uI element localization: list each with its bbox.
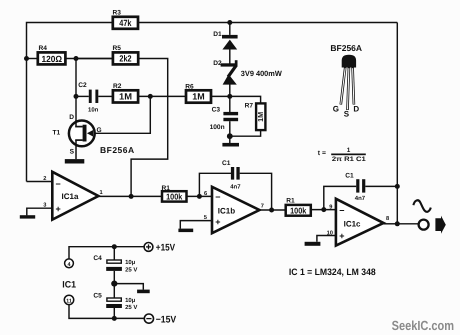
svg-text:100n: 100n	[210, 124, 225, 131]
wire R1b right to IC1c pin9	[310, 209, 336, 211]
svg-text:3: 3	[43, 203, 46, 209]
svg-text:SeekIC.com: SeekIC.com	[392, 318, 455, 333]
zener D2 3V9 400mW	[213, 60, 282, 85]
svg-text:+: +	[215, 217, 220, 227]
ground power mid node	[137, 290, 150, 294]
svg-text:+15V: +15V	[156, 243, 176, 254]
wire R5 left lead from node A	[76, 58, 113, 60]
svg-text:2k2: 2k2	[119, 54, 131, 64]
wire IC1a output to R1a	[98, 195, 162, 197]
node IC1c pin9	[321, 207, 326, 212]
svg-text:47k: 47k	[119, 18, 132, 28]
terminal -15V	[144, 314, 176, 326]
output arrow	[435, 216, 445, 234]
resistor R7 1M vertical	[245, 102, 266, 130]
node C4 top rail	[112, 244, 117, 249]
svg-text:4n7: 4n7	[230, 184, 241, 191]
wire node A down to C2 / drain	[75, 59, 77, 121]
node C5 bottom rail	[112, 316, 117, 321]
svg-text:6: 6	[204, 191, 207, 197]
svg-text:1M: 1M	[256, 112, 265, 122]
resistor R1b 100k	[286, 198, 311, 216]
svg-text:D: D	[353, 105, 359, 114]
svg-text:C1: C1	[345, 172, 354, 179]
wire power bottom rail	[69, 305, 144, 319]
wire mid node to ground	[114, 284, 143, 290]
capacitor C4 10u 25V electrolytic	[93, 255, 137, 273]
terminal pin 4	[65, 259, 74, 268]
wire IC1b output to R1b	[259, 209, 285, 211]
svg-text:1: 1	[347, 147, 351, 154]
svg-text:C2: C2	[78, 82, 87, 89]
wire C3 bottom to lower node	[229, 121, 231, 136]
svg-text:4n7: 4n7	[355, 195, 366, 202]
node IC1b pin6	[197, 194, 202, 199]
wire mid node to C5 top	[113, 284, 115, 298]
wire R1a right to IC1b pin6	[186, 195, 212, 197]
svg-text:T1: T1	[53, 130, 61, 137]
svg-text:1: 1	[100, 190, 103, 196]
svg-text:S: S	[70, 148, 75, 155]
ground T1 source	[65, 159, 85, 163]
wire R7 branch top	[230, 96, 261, 103]
svg-text:2π R1 C1: 2π R1 C1	[332, 156, 366, 163]
op-amp U1c IC1c	[327, 199, 390, 246]
svg-text:C1: C1	[222, 160, 231, 167]
svg-text:−15V: −15V	[156, 315, 177, 326]
ground below C3/R7 node	[222, 143, 239, 147]
svg-text:R4: R4	[39, 45, 48, 52]
svg-text:R6: R6	[185, 83, 194, 90]
capacitor C2 10n	[78, 82, 98, 114]
node R6/diodes/C3/R7	[227, 94, 232, 99]
ground IC1b pin5	[178, 229, 193, 233]
svg-text:−: −	[56, 179, 61, 189]
svg-text:2: 2	[43, 176, 46, 182]
ground IC1a pin3	[20, 215, 35, 218]
svg-text:BF256A: BF256A	[330, 43, 362, 53]
wire IC1c pin10 input with ground stub	[317, 236, 336, 242]
capacitor C3 100n	[210, 107, 238, 131]
node output	[395, 221, 400, 226]
node C3/R7 bottom	[227, 133, 233, 139]
wire IC1b pin5 input with ground stub	[180, 221, 212, 229]
svg-text:t =: t =	[318, 150, 326, 157]
svg-text:R7: R7	[245, 102, 254, 109]
wire R2 right to R6 left	[138, 95, 186, 97]
svg-text:R1: R1	[162, 185, 171, 192]
svg-text:IC1c: IC1c	[344, 219, 361, 228]
wire IC1a pin3 input with ground stub	[27, 208, 53, 215]
svg-text:R5: R5	[113, 45, 122, 52]
capacitor C5 10u 25V electrolytic	[93, 292, 137, 311]
svg-text:+: +	[339, 231, 344, 241]
sine wave symbol	[413, 200, 430, 212]
svg-text:−: −	[339, 205, 344, 215]
svg-text:7: 7	[261, 204, 264, 210]
wire R7 branch bottom	[230, 130, 261, 136]
wire output node to terminal circle	[397, 223, 418, 225]
svg-text:10: 10	[327, 230, 333, 236]
svg-text:BF256A: BF256A	[100, 145, 135, 155]
node diode top	[227, 20, 232, 25]
wire R4 right to node A	[65, 58, 113, 60]
svg-text:S: S	[344, 109, 350, 118]
wire node C down and left to gate arrow	[93, 96, 151, 133]
ground IC1c pin10	[305, 242, 321, 246]
svg-text:C4: C4	[93, 255, 102, 262]
svg-text:IC1: IC1	[62, 279, 76, 289]
resistor R1a 100k	[162, 185, 187, 202]
wire node to C3 top plate	[229, 96, 231, 112]
wire IC1b feedback loop via C1a	[199, 173, 231, 196]
svg-text:G: G	[333, 105, 339, 114]
svg-text:120Ω: 120Ω	[42, 54, 63, 64]
svg-text:IC1a: IC1a	[62, 192, 79, 201]
wire R6 right to diode column node	[211, 95, 230, 97]
svg-text:100k: 100k	[290, 205, 306, 215]
node IC1b output	[269, 208, 274, 213]
svg-text:IC1b: IC1b	[218, 206, 235, 215]
svg-text:1M: 1M	[119, 92, 132, 102]
wire IC1a pin2 input	[27, 181, 53, 183]
svg-text:D1: D1	[213, 31, 222, 38]
resistor R6 1M	[185, 83, 211, 102]
resistor R5 2k2	[113, 45, 139, 64]
capacitor C1a 4n7	[222, 160, 241, 190]
wire node B to C2 left plate	[76, 95, 89, 97]
svg-text:10n: 10n	[88, 107, 99, 114]
node IC1a output	[129, 194, 134, 199]
svg-text:25 V: 25 V	[125, 304, 137, 311]
wire C2 to R2	[98, 95, 113, 97]
resistor R3 47k	[113, 10, 139, 29]
wire R4 left lead	[27, 58, 38, 60]
svg-text:1M: 1M	[192, 92, 204, 102]
svg-text:10µ: 10µ	[125, 259, 136, 266]
wire R5 right down to IC1a output node	[131, 59, 168, 197]
wire IC1c feedback loop via C1b	[324, 186, 356, 209]
node output C1b tap	[395, 184, 400, 189]
svg-text:5: 5	[204, 215, 207, 221]
svg-text:3V9 400mW: 3V9 400mW	[241, 69, 283, 78]
svg-text:D: D	[69, 114, 74, 121]
svg-text:100k: 100k	[166, 192, 182, 202]
svg-text:R1: R1	[286, 198, 295, 205]
svg-text:11: 11	[66, 298, 72, 304]
node R4 left tap	[24, 56, 29, 61]
wire output column vertical	[396, 23, 398, 224]
transistor T1 JFET BF256A	[53, 114, 135, 159]
svg-text:10µ: 10µ	[125, 297, 136, 304]
wire C4 top stub	[113, 247, 115, 260]
op-amp U1a IC1a	[43, 172, 102, 220]
svg-text:D2: D2	[213, 60, 222, 67]
node B C2/drain	[74, 94, 79, 99]
wire diode chain column	[229, 23, 231, 35]
svg-text:8: 8	[386, 216, 389, 222]
svg-text:R3: R3	[113, 10, 122, 17]
capacitor C1b 4n7	[345, 172, 366, 201]
node C R2/R6/gate	[148, 94, 153, 99]
svg-text:G: G	[97, 127, 102, 134]
resistor R2 1M	[113, 83, 138, 103]
resistor R4 120ohm	[38, 45, 66, 64]
wire C4 bottom to mid node	[113, 271, 115, 284]
svg-text:C5: C5	[93, 292, 102, 299]
terminal +15V	[144, 243, 175, 254]
node A R4/R5	[74, 56, 79, 61]
svg-text:+: +	[56, 204, 61, 214]
svg-text:C3: C3	[212, 107, 221, 114]
node C4/C5 mid	[111, 281, 117, 287]
svg-text:−: −	[215, 192, 220, 202]
svg-text:IC 1 = LM324, LM 348: IC 1 = LM324, LM 348	[289, 267, 376, 277]
svg-text:9: 9	[329, 204, 332, 210]
wire C5 bottom to bottom rail	[113, 308, 115, 318]
wire power top rail	[69, 247, 144, 259]
op-amp U1b IC1b	[204, 187, 264, 233]
svg-text:25 V: 25 V	[125, 266, 137, 273]
wire top feedback rail from node left to output column	[27, 23, 113, 182]
BF256A TO-92 package	[330, 43, 362, 118]
formula t = 1/(2 pi R1 C1)	[318, 147, 366, 163]
junction node dots	[24, 20, 400, 321]
diode D1	[213, 31, 237, 49]
wire lower node ground stub	[229, 136, 231, 143]
terminal pin 11	[64, 295, 73, 304]
output terminal circle	[419, 220, 429, 230]
wire IC1c output to node	[384, 223, 398, 225]
svg-text:R2: R2	[113, 83, 122, 90]
